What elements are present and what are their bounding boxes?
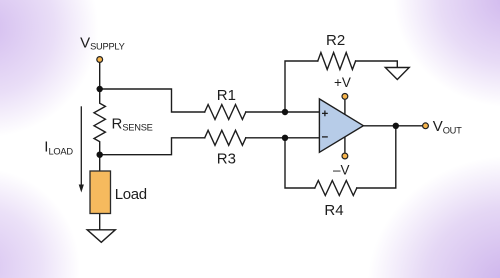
terminal -V bbox=[342, 153, 348, 159]
wire node B up to R2 bbox=[285, 61, 318, 112]
wire Load to ground bbox=[99, 214, 101, 230]
resistor R1 bbox=[205, 105, 246, 120]
wire +V pin bbox=[344, 100, 346, 115]
wire node D to op-amp - input bbox=[285, 137, 319, 139]
svg-text:R2: R2 bbox=[326, 32, 345, 49]
wire node D down to R4 bbox=[285, 138, 315, 188]
svg-text:+V: +V bbox=[334, 75, 351, 90]
svg-text:R3: R3 bbox=[217, 151, 236, 168]
wire R3 to node D bbox=[246, 137, 285, 139]
wire R2 to ground bbox=[356, 61, 398, 68]
node A junction bbox=[97, 86, 103, 92]
svg-text:RSENSE: RSENSE bbox=[112, 116, 153, 133]
node E junction (output) bbox=[393, 123, 399, 129]
resistor RSENSE bbox=[94, 89, 105, 155]
ground (top right) bbox=[385, 68, 409, 80]
node B junction (+ input) bbox=[282, 109, 288, 115]
terminal Vsupply bbox=[97, 57, 103, 63]
wire Vsupply to node A bbox=[99, 63, 101, 89]
node C junction bbox=[97, 152, 103, 158]
svg-text:ILOAD: ILOAD bbox=[44, 139, 73, 157]
load (resistive load block) bbox=[90, 171, 111, 214]
wire op-amp output to Vout terminal bbox=[363, 125, 422, 127]
wire -V pin bbox=[344, 137, 346, 153]
wire node C to R3 bbox=[100, 138, 205, 155]
wire node B to op-amp + input bbox=[285, 111, 319, 113]
ground (below Load) bbox=[87, 230, 115, 243]
wire node C down to Load bbox=[99, 155, 101, 171]
svg-text:R1: R1 bbox=[217, 87, 236, 104]
svg-text:Load: Load bbox=[115, 186, 147, 203]
resistor R2 bbox=[318, 53, 356, 70]
svg-text:R4: R4 bbox=[324, 202, 343, 219]
wire R1 to node B bbox=[246, 111, 285, 113]
wire R4 to output node E bbox=[357, 126, 396, 188]
svg-text:VSUPPLY: VSUPPLY bbox=[80, 34, 125, 51]
op-amp U1 bbox=[319, 99, 363, 152]
terminal Vout bbox=[423, 123, 429, 129]
resistor R3 bbox=[205, 130, 246, 145]
op-amp - input marking bbox=[322, 136, 328, 138]
arrow Iload bbox=[79, 106, 84, 192]
node D junction (- input) bbox=[282, 135, 288, 141]
wire node A to R1 bbox=[100, 89, 205, 112]
svg-text:VOUT: VOUT bbox=[433, 118, 462, 135]
terminal +V bbox=[342, 94, 348, 100]
op-amp + input marking bbox=[322, 111, 328, 117]
resistor R4 bbox=[315, 181, 357, 196]
svg-text:–V: –V bbox=[333, 163, 350, 178]
